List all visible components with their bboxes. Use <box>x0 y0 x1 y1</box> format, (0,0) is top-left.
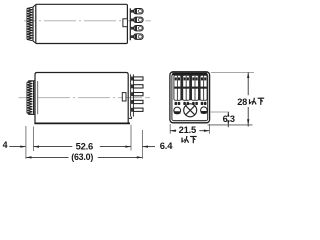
centerline (side view axis) <box>19 97 151 99</box>
side view body outline <box>35 73 128 124</box>
terminal slot group 2 <box>183 75 190 100</box>
chamfer to cap <box>33 5 36 44</box>
dark top band <box>172 73 207 76</box>
blade pin 5 (side view) <box>134 108 144 111</box>
svg-text:6.4: 6.4 <box>160 140 173 151</box>
knurled ribs (top view cap) <box>27 7 32 40</box>
svg-text:(63.0): (63.0) <box>71 152 93 162</box>
dim line (63.0) left segment with arrow (points left) <box>26 156 69 158</box>
terminal slot group 4 <box>200 75 207 100</box>
pin base plate line (top view) <box>129 8 131 40</box>
svg-text:6.3: 6.3 <box>223 114 235 124</box>
blade pin 1 (side view) <box>134 77 144 80</box>
dim line 52.6 left segment with arrow (points left) <box>33 146 72 148</box>
arrow into left ext (points right) <box>20 145 26 147</box>
ext line from front view top <box>211 71 254 73</box>
side view bottom edge (thick) <box>34 122 130 124</box>
cap edge line (top view) <box>32 7 34 42</box>
pin 3 (top view) <box>131 26 144 31</box>
dim line 6.4 (arrow points left at pin-tip ext) <box>142 146 155 148</box>
center X circle <box>184 104 197 117</box>
latch tab (side view right) <box>122 93 126 101</box>
vertical dim line 6.3 (arrows up+down) <box>227 112 229 127</box>
base plate bottom step (side view) <box>129 117 132 119</box>
blade pin 2 (side view) <box>134 85 144 88</box>
extension line below body right <box>130 125 132 151</box>
front view inner rim <box>172 74 208 121</box>
svg-text:28: 28 <box>237 97 247 107</box>
terminal slot group 1 <box>174 75 181 100</box>
pin 1 (top view) <box>131 9 144 14</box>
terminal slot group 3 <box>192 75 199 100</box>
right screw circle <box>201 107 208 114</box>
terminal hole marks row <box>175 102 207 105</box>
ext line bottom (pin tip level) <box>208 124 253 126</box>
svg-text:21.5: 21.5 <box>179 124 196 135</box>
svg-text:4: 4 <box>3 140 8 150</box>
top view body outline <box>33 4 128 43</box>
pin 2 (top view) <box>131 17 144 22</box>
blade pin 3 (side view) <box>134 93 144 96</box>
slot area dark separators <box>181 75 200 101</box>
dim line 21.5 with inside arrows <box>170 130 209 132</box>
latch tab (top view right edge) <box>123 19 128 27</box>
knurled cap bump (side view) <box>27 81 35 115</box>
ext lines below front view <box>170 124 209 134</box>
pin base plate bar (side view) <box>131 74 134 116</box>
dim line 52.6 right segment with arrow (points right) <box>100 146 131 148</box>
dim line (63.0) right segment with arrow (points right) <box>98 156 143 158</box>
extension line below pin tips <box>141 130 143 159</box>
cap inner line (side view) <box>37 81 39 114</box>
svg-text:52.6: 52.6 <box>76 140 93 151</box>
blade pin 4 (side view) <box>134 100 144 103</box>
extension line below body left <box>32 127 34 152</box>
centerline (top view axis) <box>24 20 151 22</box>
front view outer case <box>170 72 210 123</box>
dim label 以下 (below 21.5) <box>182 136 197 143</box>
dim line for 4 (leader from label) <box>9 146 25 148</box>
pin 4 (top view) <box>131 34 144 39</box>
vertical dim line 28max upper segment (arrow up) <box>247 72 249 95</box>
cap edge line (side view) <box>33 81 35 115</box>
extension line below cap left <box>25 126 27 159</box>
vertical dim line 28max lower segment (arrow down) <box>247 107 249 127</box>
left screw circle <box>174 107 181 114</box>
ext line from terminal row <box>211 111 230 113</box>
